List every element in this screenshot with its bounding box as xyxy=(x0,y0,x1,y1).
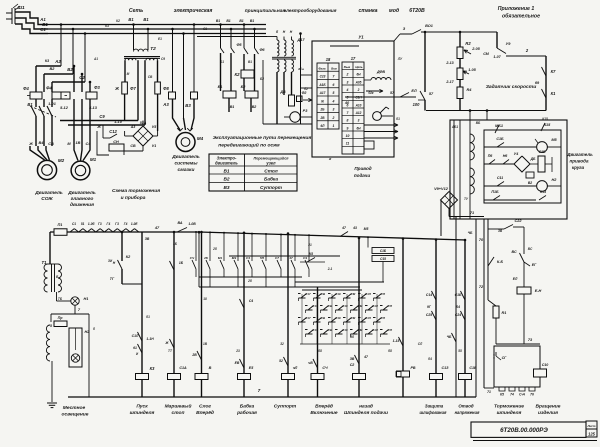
svg-text:57: 57 xyxy=(429,92,434,96)
svg-text:обязательное: обязательное xyxy=(502,13,540,20)
svg-text:9Г: 9Г xyxy=(427,305,432,309)
svg-text:П1Б: П1Б xyxy=(491,190,499,194)
svg-text:С9: С9 xyxy=(99,114,105,119)
svg-text:А3: А3 xyxy=(162,102,169,107)
svg-text:В1: В1 xyxy=(216,19,220,23)
svg-text:Привод: Привод xyxy=(354,166,371,171)
svg-text:А1Б: А1Б xyxy=(318,83,326,87)
svg-text:принципиальная: принципиальная xyxy=(245,9,286,14)
svg-text:и прибора: и прибора xyxy=(121,194,146,201)
svg-text:Пр: Пр xyxy=(58,316,64,320)
svg-text:Н: Н xyxy=(290,30,293,34)
svg-text:С1Л: С1Л xyxy=(132,334,139,338)
svg-text:2-13: 2-13 xyxy=(445,61,453,65)
svg-text:В2: В2 xyxy=(50,67,56,71)
svg-text:ЗВ: ЗВ xyxy=(350,357,355,361)
svg-text:2.05: 2.05 xyxy=(471,47,480,51)
svg-text:4: 4 xyxy=(332,99,335,103)
svg-text:Вив: Вив xyxy=(331,66,337,70)
svg-text:б2: б2 xyxy=(304,87,308,91)
svg-text:Вперёд: Вперёд xyxy=(315,404,333,410)
svg-text:Ж: Ж xyxy=(28,142,33,146)
svg-text:электрооборудования: электрооборудования xyxy=(284,7,337,13)
svg-text:СВ: СВ xyxy=(48,142,54,146)
svg-text:2: 2 xyxy=(346,73,349,77)
svg-text:К7: К7 xyxy=(551,69,556,74)
svg-text:П6: П6 xyxy=(488,154,494,158)
svg-text:В1: В1 xyxy=(128,17,134,22)
svg-text:СЧ: СЧ xyxy=(322,366,328,370)
svg-text:С1А: С1А xyxy=(179,366,187,370)
svg-text:3: 3 xyxy=(347,80,349,84)
svg-text:В3: В3 xyxy=(185,103,191,108)
svg-text:ЕЛ: ЕЛ xyxy=(411,89,417,93)
svg-text:9: 9 xyxy=(347,126,349,130)
svg-text:Включение: Включение xyxy=(310,410,337,416)
svg-text:Двигатель: Двигатель xyxy=(566,152,593,157)
svg-text:Ф4: Ф4 xyxy=(23,86,29,91)
svg-text:шпинделя: шпинделя xyxy=(497,410,522,416)
svg-text:Фаза: Фаза xyxy=(318,66,325,70)
svg-text:изделия: изделия xyxy=(538,410,558,416)
svg-text:В: В xyxy=(209,366,212,370)
svg-text:Цепь: Цепь xyxy=(355,65,363,69)
svg-text:М5: М5 xyxy=(364,227,369,231)
svg-text:2Б: 2Б xyxy=(320,108,326,112)
svg-text:СЧ: СЧ xyxy=(190,256,195,260)
svg-text:А12: А12 xyxy=(355,111,362,115)
svg-text:Е-Н: Е-Н xyxy=(535,289,542,293)
svg-text:Лист: Лист xyxy=(586,424,595,428)
svg-text:электрическая: электрическая xyxy=(174,8,213,14)
svg-text:S4: S4 xyxy=(456,305,460,309)
svg-text:К5: К5 xyxy=(309,252,313,256)
svg-text:б8: б8 xyxy=(388,349,392,353)
svg-text:У4: У4 xyxy=(514,152,518,156)
svg-text:Выв: Выв xyxy=(344,65,351,69)
svg-text:6Т20В.00.000РЭ: 6Т20В.00.000РЭ xyxy=(500,427,548,434)
svg-text:Задатчик скорости: Задатчик скорости xyxy=(486,84,536,90)
svg-text:чВ: чВ xyxy=(308,361,313,365)
svg-text:2В: 2В xyxy=(191,353,197,357)
svg-text:а: а xyxy=(302,67,304,71)
svg-text:1Б: 1Б xyxy=(179,261,184,265)
svg-text:В2: В2 xyxy=(67,67,73,72)
svg-text:2-17: 2-17 xyxy=(445,80,454,84)
svg-text:А10: А10 xyxy=(355,103,362,107)
svg-text:R1: R1 xyxy=(502,311,507,315)
svg-text:4: 4 xyxy=(346,88,349,92)
svg-text:1: 1 xyxy=(333,124,335,128)
svg-text:ЕЛ: ЕЛ xyxy=(513,277,518,281)
svg-text:ТБ: ТБ xyxy=(58,297,63,301)
svg-text:В1: В1 xyxy=(248,60,252,64)
svg-text:1-15: 1-15 xyxy=(393,339,400,343)
svg-text:напряжения: напряжения xyxy=(455,410,480,415)
svg-text:б8: б8 xyxy=(318,349,322,353)
svg-text:системы: системы xyxy=(174,162,198,167)
svg-text:мод: мод xyxy=(389,8,400,14)
svg-text:СГ: СГ xyxy=(502,356,508,360)
svg-text:18: 18 xyxy=(326,57,331,62)
svg-text:К.Б: К.Б xyxy=(497,260,503,264)
svg-text:74: 74 xyxy=(510,393,514,397)
svg-text:1-07: 1-07 xyxy=(493,55,501,59)
svg-text:б: б xyxy=(276,30,279,34)
svg-text:3: 3 xyxy=(358,119,360,123)
svg-text:В2: В2 xyxy=(528,181,532,185)
svg-text:М2: М2 xyxy=(58,158,65,163)
svg-text:МЗ: МЗ xyxy=(232,256,237,260)
svg-text:17: 17 xyxy=(351,56,356,61)
svg-text:А17: А17 xyxy=(319,91,326,95)
svg-text:С1: С1 xyxy=(40,27,46,32)
svg-text:ж: ж xyxy=(328,157,332,161)
svg-text:ВС: ВС xyxy=(511,250,517,254)
svg-text:СМ: СМ xyxy=(351,316,356,320)
svg-text:С1: С1 xyxy=(203,27,207,31)
svg-text:32: 32 xyxy=(280,342,284,346)
svg-text:б: б xyxy=(93,327,96,331)
svg-text:Маршевый: Маршевый xyxy=(165,403,192,410)
svg-text:узел: узел xyxy=(265,161,276,166)
svg-text:С19: С19 xyxy=(335,316,341,320)
svg-text:Ж: Ж xyxy=(96,125,101,129)
svg-text:Слог: Слог xyxy=(199,404,211,410)
svg-text:Схема торможения: Схема торможения xyxy=(112,188,160,194)
svg-text:Вперёд: Вперёд xyxy=(196,410,214,416)
svg-text:круга: круга xyxy=(572,165,585,170)
svg-text:2-1: 2-1 xyxy=(327,267,333,271)
svg-text:70: 70 xyxy=(479,238,484,242)
svg-text:Отвод: Отвод xyxy=(458,404,474,409)
svg-text:СВ: СВ xyxy=(321,316,325,320)
svg-text:Ф4: Ф4 xyxy=(46,86,52,91)
svg-text:В1: В1 xyxy=(250,19,254,23)
svg-text:6Н: 6Н xyxy=(356,73,361,77)
svg-text:СП: СП xyxy=(381,316,386,320)
svg-text:б1: б1 xyxy=(146,315,150,319)
svg-text:К2: К2 xyxy=(116,19,120,23)
svg-text:18: 18 xyxy=(203,297,207,301)
svg-text:5: 5 xyxy=(347,96,349,100)
svg-text:СВ: СВ xyxy=(321,292,325,296)
svg-text:Бабка: Бабка xyxy=(264,176,278,183)
svg-text:СВ: СВ xyxy=(130,144,136,148)
svg-text:2: 2 xyxy=(332,116,335,120)
svg-text:С2: С2 xyxy=(350,363,355,367)
svg-text:Ф7: Ф7 xyxy=(130,86,136,91)
svg-text:В1: В1 xyxy=(230,105,235,109)
svg-text:движения: движения xyxy=(70,202,94,208)
svg-text:СВ: СВ xyxy=(328,304,332,308)
svg-text:С25: С25 xyxy=(426,313,432,317)
svg-text:Н2: Н2 xyxy=(552,178,558,182)
svg-text:С17: С17 xyxy=(305,316,311,320)
svg-text:Двигатель: Двигатель xyxy=(67,190,96,196)
svg-text:Приложение 1: Приложение 1 xyxy=(498,6,535,12)
svg-text:освещение: освещение xyxy=(62,413,89,418)
svg-text:Ж: Ж xyxy=(114,86,119,91)
svg-text:Шпинделя подачи: Шпинделя подачи xyxy=(344,410,388,416)
svg-text:СП: СП xyxy=(388,328,393,332)
svg-text:Б2: Б2 xyxy=(241,85,247,89)
svg-text:В4: В4 xyxy=(39,141,45,145)
svg-text:В3: В3 xyxy=(223,185,229,191)
svg-text:СП: СП xyxy=(381,292,386,296)
svg-text:С4: С4 xyxy=(86,142,92,146)
svg-text:8: 8 xyxy=(347,119,349,123)
svg-text:Б2: Б2 xyxy=(260,77,264,81)
svg-text:Ф6: Ф6 xyxy=(259,48,265,52)
svg-text:3: 3 xyxy=(333,108,335,112)
svg-text:71: 71 xyxy=(487,390,491,394)
svg-text:ЧБ: ЧБ xyxy=(468,231,473,235)
svg-text:R2: R2 xyxy=(465,41,471,46)
svg-text:1-0б: 1-0б xyxy=(88,222,96,226)
svg-text:V5: V5 xyxy=(152,125,157,129)
svg-text:ДБ: ДБ xyxy=(530,157,536,161)
svg-text:Н1: Н1 xyxy=(84,297,89,301)
svg-text:назад: назад xyxy=(359,404,373,410)
svg-text:АБ1: АБ1 xyxy=(451,125,459,129)
svg-text:ВБ: ВБ xyxy=(476,121,481,125)
svg-text:привода: привода xyxy=(570,159,589,164)
svg-text:ВО1: ВО1 xyxy=(425,24,433,28)
svg-text:В2: В2 xyxy=(252,105,257,109)
svg-text:шпинделя: шпинделя xyxy=(130,410,155,416)
svg-text:ТТ: ТТ xyxy=(168,349,173,353)
svg-text:6: 6 xyxy=(333,83,335,87)
svg-text:С10: С10 xyxy=(542,363,549,367)
svg-text:Ф8: Ф8 xyxy=(163,86,169,91)
svg-text:2б: 2б xyxy=(212,247,218,251)
svg-text:шлифования: шлифования xyxy=(420,410,447,415)
svg-text:Стол: Стол xyxy=(264,168,277,174)
svg-text:главного: главного xyxy=(71,197,94,202)
svg-text:А2: А2 xyxy=(54,59,61,64)
svg-text:Пуск: Пуск xyxy=(136,404,148,410)
svg-text:СЗ: СЗ xyxy=(303,256,307,260)
svg-text:Двигатель: Двигатель xyxy=(34,190,63,196)
svg-text:К5: К5 xyxy=(500,393,504,397)
svg-text:Н: Н xyxy=(283,30,286,34)
svg-text:72: 72 xyxy=(479,285,484,289)
svg-text:И: И xyxy=(136,352,139,356)
svg-text:ЧБ: ЧБ xyxy=(447,335,452,339)
svg-text:7: 7 xyxy=(78,308,81,312)
svg-text:СВ: СВ xyxy=(148,75,153,79)
svg-text:С1Л: С1Л xyxy=(365,292,371,296)
svg-text:СП: СП xyxy=(388,304,393,308)
svg-text:рабочая: рабочая xyxy=(236,409,257,416)
svg-text:Т2: Т2 xyxy=(150,46,156,52)
svg-text:передвигающий по осям: передвигающий по осям xyxy=(218,142,280,149)
svg-text:Г3: Г3 xyxy=(98,222,102,226)
svg-text:Защита: Защита xyxy=(425,404,444,409)
svg-text:2: 2 xyxy=(357,88,360,92)
svg-text:Ж: Ж xyxy=(320,99,325,103)
svg-text:5-12: 5-12 xyxy=(60,106,69,110)
svg-text:23: 23 xyxy=(235,349,240,353)
svg-text:7: 7 xyxy=(258,388,261,393)
svg-text:С9: С9 xyxy=(161,57,165,61)
svg-text:М: М xyxy=(67,142,71,146)
svg-text:ТУ: ТУ xyxy=(464,197,469,201)
svg-text:61: 61 xyxy=(133,346,137,350)
svg-text:11: 11 xyxy=(346,142,350,146)
svg-text:С1Н: С1Н xyxy=(355,96,362,100)
svg-text:У1: У1 xyxy=(358,35,364,40)
svg-text:С1: С1 xyxy=(72,222,76,226)
svg-text:ЗВ: ЗВ xyxy=(498,229,503,233)
svg-text:Н6: Н6 xyxy=(503,154,509,158)
svg-text:55: 55 xyxy=(458,349,462,353)
svg-text:1-1Н: 1-1Н xyxy=(146,337,154,341)
svg-text:ЗИ: ЗИ xyxy=(108,259,113,263)
svg-text:76: 76 xyxy=(530,393,534,397)
svg-text:6Л: 6Л xyxy=(321,124,326,128)
svg-text:С23: С23 xyxy=(320,75,326,79)
svg-text:С12: С12 xyxy=(109,129,117,134)
svg-text:С4: С4 xyxy=(249,299,253,303)
svg-text:Ж: Ж xyxy=(164,341,169,345)
svg-text:10: 10 xyxy=(346,134,350,138)
svg-text:М: М xyxy=(127,72,130,76)
svg-text:7: 7 xyxy=(333,75,336,79)
svg-text:б/г: б/г xyxy=(368,91,373,95)
svg-text:47: 47 xyxy=(363,355,369,359)
svg-text:Н: Н xyxy=(113,261,116,265)
svg-text:ВА: ВА xyxy=(177,221,182,225)
svg-text:Торможение: Торможение xyxy=(494,404,524,410)
svg-text:ЕВ: ЕВ xyxy=(235,361,240,365)
svg-text:СМ: СМ xyxy=(351,292,356,296)
svg-text:ЛУ: ЛУ xyxy=(397,57,403,61)
svg-text:1-10: 1-10 xyxy=(114,120,123,124)
svg-text:2: 2 xyxy=(525,48,529,53)
svg-text:ДФВ: ДФВ xyxy=(376,70,385,74)
svg-text:В1: В1 xyxy=(239,19,243,23)
svg-text:1В: 1В xyxy=(203,342,208,346)
svg-text:К2: К2 xyxy=(234,72,240,77)
svg-text:С11: С11 xyxy=(497,176,503,180)
svg-text:51: 51 xyxy=(81,222,85,226)
svg-text:52: 52 xyxy=(279,359,283,363)
svg-text:R4: R4 xyxy=(467,88,473,92)
svg-text:V1: V1 xyxy=(152,144,156,148)
svg-text:К2: К2 xyxy=(126,255,131,259)
svg-text:Зб: Зб xyxy=(350,335,355,339)
svg-text:47: 47 xyxy=(341,226,347,230)
svg-text:Суппорт: Суппорт xyxy=(274,404,297,410)
svg-text:С14: С14 xyxy=(426,293,432,297)
svg-text:С17: С17 xyxy=(305,292,311,296)
svg-text:Бабка: Бабка xyxy=(240,403,255,410)
svg-text:К15: К15 xyxy=(542,117,548,121)
svg-text:а1: а1 xyxy=(298,67,302,71)
svg-text:СМ: СМ xyxy=(483,52,490,56)
svg-text:К1: К1 xyxy=(551,91,556,96)
svg-text:СОЖ: СОЖ xyxy=(41,196,53,202)
svg-text:М5: М5 xyxy=(551,138,557,142)
svg-text:Вращение: Вращение xyxy=(536,404,561,410)
svg-text:ДВ: ДВ xyxy=(279,90,286,94)
svg-text:Е1: Е1 xyxy=(158,37,162,41)
svg-text:ТГ: ТГ xyxy=(110,277,115,281)
svg-text:100: 100 xyxy=(413,102,421,107)
svg-text:б1: б1 xyxy=(396,117,400,121)
svg-text:47: 47 xyxy=(288,256,293,260)
svg-text:СН: СН xyxy=(113,140,119,144)
svg-text:С24: С24 xyxy=(455,313,461,317)
svg-text:Г4: Г4 xyxy=(107,222,111,226)
svg-text:С1Б: С1Б xyxy=(380,249,387,253)
svg-text:73: 73 xyxy=(528,338,533,342)
svg-text:П1: П1 xyxy=(58,223,63,227)
svg-text:С19: С19 xyxy=(335,292,341,296)
svg-text:С7: С7 xyxy=(275,256,279,260)
svg-text:чЛ: чЛ xyxy=(293,366,298,370)
svg-text:Сеть: Сеть xyxy=(129,8,143,14)
svg-text:Ф3: Ф3 xyxy=(94,85,100,90)
svg-text:1В: 1В xyxy=(76,141,81,145)
svg-text:РВ: РВ xyxy=(410,366,415,370)
svg-text:У9: У9 xyxy=(506,42,512,46)
svg-text:40: 40 xyxy=(344,101,350,105)
svg-text:З: З xyxy=(403,27,406,31)
svg-text:подачи: подачи xyxy=(354,173,371,178)
svg-text:смазки: смазки xyxy=(178,168,195,173)
svg-text:71: 71 xyxy=(470,211,474,215)
svg-text:В1: В1 xyxy=(223,168,229,174)
svg-text:Суппорт: Суппорт xyxy=(260,185,283,191)
svg-text:А1: А1 xyxy=(93,57,98,61)
svg-text:станка: станка xyxy=(358,8,377,14)
svg-text:С1Л: С1Л xyxy=(365,316,371,320)
svg-text:1-0В: 1-0В xyxy=(188,222,196,226)
svg-text:1.05: 1.05 xyxy=(468,68,476,72)
svg-text:ЗВ: ЗВ xyxy=(145,237,150,241)
svg-text:Ф2: Ф2 xyxy=(302,91,307,95)
svg-text:Б1: Б1 xyxy=(220,60,224,64)
svg-text:ЕГ: ЕГ xyxy=(532,263,537,267)
svg-text:К3: К3 xyxy=(105,24,109,28)
svg-text:М4: М4 xyxy=(197,136,204,141)
svg-text:Местное: Местное xyxy=(63,405,86,411)
svg-text:Эксплуатационные пути переме: Эксплуатационные пути перемещения xyxy=(213,135,312,141)
svg-text:5П: 5П xyxy=(260,256,265,260)
svg-text:СЛ: СЛ xyxy=(418,342,423,346)
svg-text:С1Б: С1Б xyxy=(539,150,546,154)
svg-text:1-0Е: 1-0Е xyxy=(131,222,139,226)
svg-text:С22: С22 xyxy=(514,219,522,223)
svg-text:V9+V12: V9+V12 xyxy=(434,187,449,191)
svg-text:7: 7 xyxy=(347,111,350,115)
svg-text:В1: В1 xyxy=(143,17,149,22)
svg-text:М1: М1 xyxy=(218,256,223,260)
svg-text:А05: А05 xyxy=(355,80,362,84)
svg-text:СВ: СВ xyxy=(328,328,332,332)
svg-text:47: 47 xyxy=(154,226,160,230)
svg-text:С1Б: С1Б xyxy=(455,293,462,297)
svg-text:б4: б4 xyxy=(428,357,432,361)
svg-text:К3: К3 xyxy=(45,59,49,63)
svg-text:43: 43 xyxy=(352,226,357,230)
svg-text:Ф5: Ф5 xyxy=(236,43,242,47)
svg-text:С15: С15 xyxy=(380,257,386,261)
svg-text:5-13: 5-13 xyxy=(89,106,98,110)
